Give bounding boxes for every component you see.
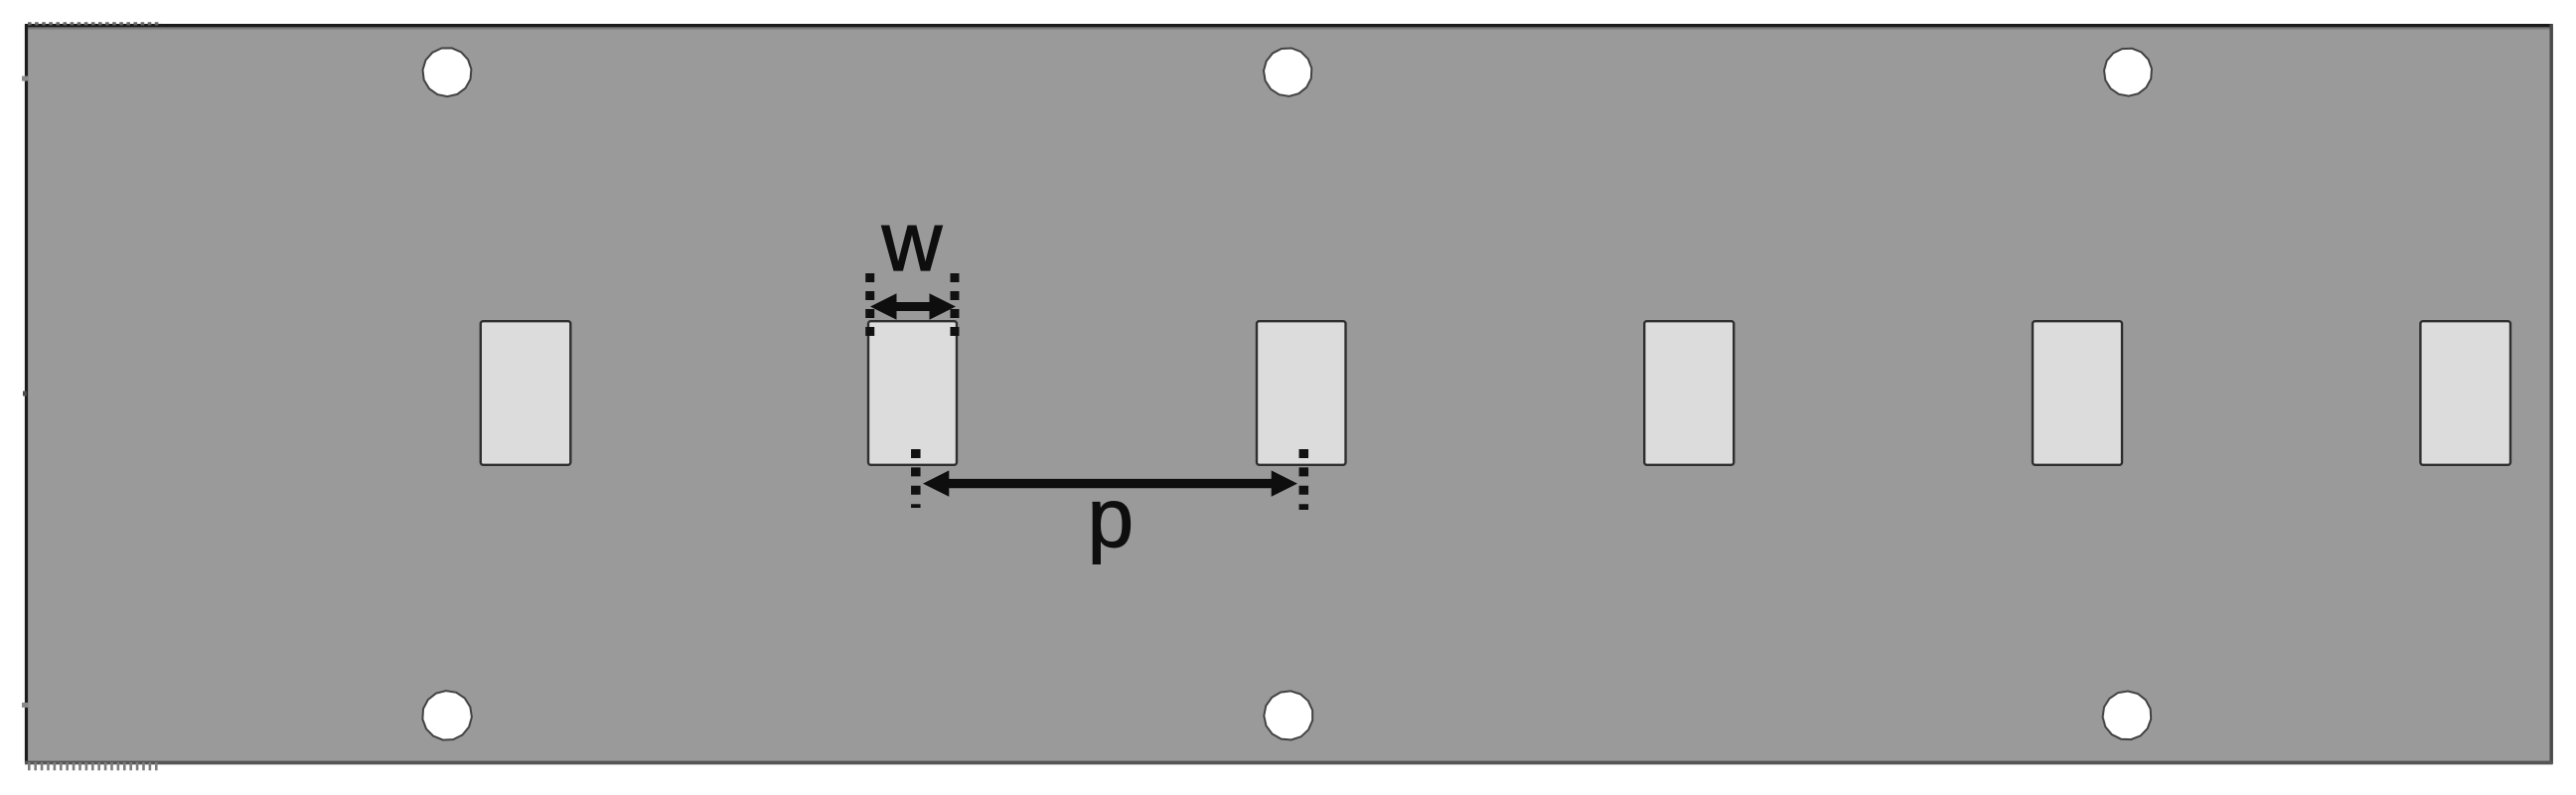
svg-text:w: w — [881, 195, 943, 288]
p dimension double arrow — [923, 470, 1297, 496]
plate left edge — [25, 24, 28, 763]
bottom edge tick marks — [28, 762, 161, 770]
slot S5 — [2033, 321, 2122, 465]
hole H3 top-right — [2104, 49, 2152, 96]
p extension dotted line left — [911, 449, 921, 508]
top edge tick marks — [28, 22, 162, 25]
slot S2 — [868, 321, 957, 465]
hole H5 bottom-middle — [1264, 691, 1312, 739]
plate top edge — [25, 24, 2553, 27]
w extension dotted line left — [865, 273, 874, 336]
svg-text:p: p — [1087, 471, 1134, 564]
slot S3 — [1257, 321, 1346, 465]
plate top inner shade — [28, 27, 2550, 31]
hole H2 top-middle — [1264, 49, 1311, 96]
hole H1 top-left — [423, 48, 472, 96]
slot S1 — [481, 321, 571, 465]
hole H4 bottom-left — [422, 691, 472, 740]
left edge nub middle — [23, 392, 27, 397]
p extension dotted line right — [1299, 449, 1309, 510]
w extension dotted line right — [951, 273, 960, 336]
hole H6 bottom-right — [2103, 692, 2152, 740]
plate right edge — [2549, 24, 2553, 764]
left edge nub upper — [22, 77, 28, 81]
slot S6 — [2420, 321, 2510, 465]
slot S4 — [1644, 321, 1734, 465]
plate bottom edge — [25, 761, 2553, 765]
left edge nub lower — [22, 703, 28, 708]
w dimension double arrow — [870, 293, 956, 319]
